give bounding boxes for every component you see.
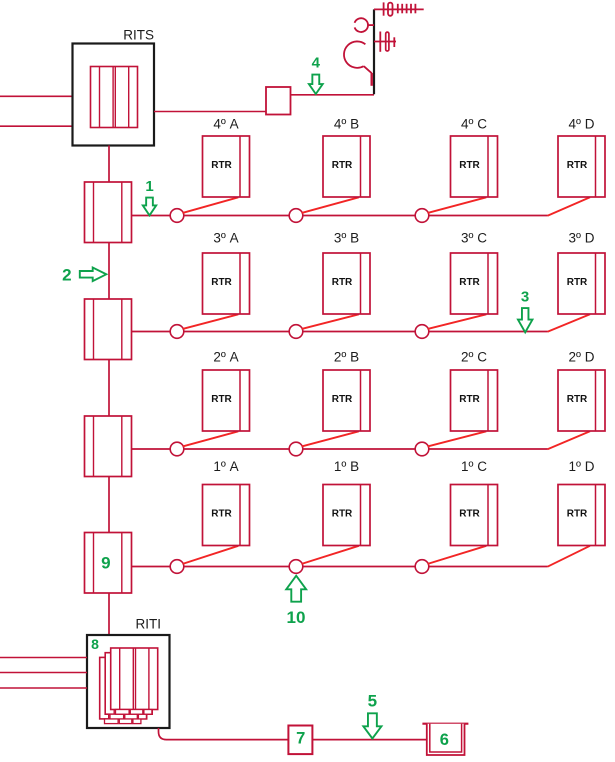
arrow 2 <box>80 268 107 282</box>
svg-text:6: 6 <box>440 731 449 749</box>
node: floor 1º distribution point 2 <box>289 560 303 574</box>
svg-text:3º A: 3º A <box>213 231 238 246</box>
wire: floor 2º distribution line <box>132 448 548 450</box>
svg-text:4º A: 4º A <box>213 117 238 132</box>
RTR box 2º B <box>323 370 370 431</box>
RITS enclosure <box>73 44 155 146</box>
node: floor 3º distribution point 3 <box>415 325 429 339</box>
RTR box 4º B <box>323 136 370 197</box>
arqueta outer wall <box>427 724 465 755</box>
junction box 7 <box>288 726 312 755</box>
svg-text:RTR: RTR <box>332 508 353 519</box>
wire: floor 2º diagonal to unit C <box>428 431 487 446</box>
node: floor 3º distribution point 2 <box>289 325 303 339</box>
secondary register floor 4 <box>85 182 132 243</box>
RTR box 3º C <box>451 253 498 314</box>
cabinet stack in RITI (front) <box>111 648 158 714</box>
FM omni antenna open circle <box>355 18 368 32</box>
wire: riser segment below floor 2 <box>108 477 110 533</box>
wire: floor 4º diagonal to unit B <box>302 197 359 213</box>
wire: external feed into RITI 3 <box>0 687 87 689</box>
node: floor 2º distribution point 3 <box>415 442 429 456</box>
svg-text:3º C: 3º C <box>461 231 487 246</box>
RTR box 3º B <box>323 253 370 314</box>
wire: floor 1º diagonal to unit D <box>548 546 591 567</box>
arqueta lid <box>422 723 468 725</box>
arqueta inner wall <box>430 724 462 752</box>
yagi reflector element <box>383 2 385 15</box>
wire: floor 1º diagonal to unit A <box>183 546 239 564</box>
cabinet stack in RITI (middle) <box>105 653 152 719</box>
wire: dish downlead on mast <box>371 73 373 86</box>
svg-text:RTR: RTR <box>211 277 232 288</box>
svg-text:RITS: RITS <box>123 28 154 43</box>
RTR box 1º C <box>451 485 498 546</box>
svg-text:RTR: RTR <box>459 394 480 405</box>
svg-text:5: 5 <box>368 692 377 711</box>
node: floor 3º distribution point 1 <box>170 325 184 339</box>
node: floor 1º distribution point 3 <box>415 560 429 574</box>
wire: riser RITS to register 4 <box>108 146 110 183</box>
wire: floor 4º diagonal to unit A <box>183 197 239 213</box>
wire: floor 4º diagonal to unit D <box>548 197 591 215</box>
wire: floor 2º diagonal to unit D <box>548 431 591 449</box>
node: floor 4º distribution point 1 <box>170 209 184 223</box>
node: floor 2º distribution point 2 <box>289 442 303 456</box>
svg-text:1: 1 <box>145 178 153 195</box>
RTR box 1º A <box>203 485 250 546</box>
wire: omni antenna to mast <box>368 24 374 26</box>
svg-text:2º C: 2º C <box>461 350 487 365</box>
svg-text:4º C: 4º C <box>461 117 487 132</box>
wire: floor 1º diagonal to unit B <box>302 546 359 564</box>
RTR box 4º A <box>203 136 250 197</box>
svg-text:7: 7 <box>296 730 305 748</box>
arrow 10 <box>286 576 306 602</box>
svg-text:RTR: RTR <box>567 160 588 171</box>
node: floor 2º distribution point 1 <box>170 442 184 456</box>
RTR box 1º D <box>558 485 605 546</box>
RITI enclosure <box>87 635 170 728</box>
svg-text:3º D: 3º D <box>569 231 595 246</box>
secondary register floor 1 <box>85 533 132 594</box>
svg-text:RTR: RTR <box>211 508 232 519</box>
wire: floor 2º diagonal to unit B <box>302 431 359 446</box>
satellite dish feed arm <box>364 66 372 73</box>
svg-text:8: 8 <box>91 636 99 652</box>
wire: feeder line into RITS (lower) <box>0 125 73 127</box>
node: floor 4º distribution point 3 <box>415 209 429 223</box>
cabinet inside RITS <box>91 67 138 128</box>
RTR box 4º C <box>451 136 498 197</box>
satellite dish reflector <box>344 41 365 67</box>
svg-text:RTR: RTR <box>332 394 353 405</box>
secondary register floor 3 <box>85 299 132 360</box>
cabinet stack in RITI (back) <box>100 657 147 723</box>
wire: floor 3º diagonal to unit D <box>548 314 591 331</box>
RTR box 3º A <box>203 253 250 314</box>
svg-text:1º C: 1º C <box>461 459 487 474</box>
svg-text:RTR: RTR <box>459 508 480 519</box>
wire: floor 1º distribution line <box>132 566 548 568</box>
svg-text:3: 3 <box>521 289 529 306</box>
node: floor 1º distribution point 1 <box>170 560 184 574</box>
wire: riser segment below floor 3 <box>108 360 110 417</box>
wire: floor 1º diagonal to unit C <box>428 546 487 564</box>
svg-text:4º B: 4º B <box>334 117 359 132</box>
arrow 3 <box>518 308 533 332</box>
node: floor 4º distribution point 2 <box>289 209 303 223</box>
RTR box 2º C <box>451 370 498 431</box>
svg-text:2º A: 2º A <box>213 350 238 365</box>
svg-text:RTR: RTR <box>567 394 588 405</box>
wire: RITI to box 7 <box>159 728 289 740</box>
svg-text:1º D: 1º D <box>569 459 595 474</box>
wire: feeder line into RITS (upper) <box>0 95 73 97</box>
wire: floor 4º distribution line <box>132 215 548 217</box>
wire: external feed into RITI 2 <box>0 672 87 674</box>
svg-text:3º B: 3º B <box>334 231 359 246</box>
RTR box 3º D <box>558 253 605 314</box>
svg-text:RTR: RTR <box>211 160 232 171</box>
svg-text:RTR: RTR <box>332 160 353 171</box>
DAB antenna dipole loop <box>386 32 389 51</box>
amplifier box (antenna feed) <box>266 87 291 115</box>
svg-text:RTR: RTR <box>567 508 588 519</box>
svg-text:1º B: 1º B <box>334 459 359 474</box>
secondary register floor 2 <box>85 416 132 477</box>
antenna mast <box>373 9 375 94</box>
svg-text:1º A: 1º A <box>213 459 238 474</box>
wire: floor 3º diagonal to unit B <box>302 314 359 329</box>
wire: amplifier to mast <box>291 94 375 96</box>
svg-text:2: 2 <box>62 266 71 285</box>
wire: floor 4º diagonal to unit C <box>428 197 487 213</box>
DAB antenna boom <box>374 41 396 43</box>
RTR box 4º D <box>558 136 605 197</box>
DAB antenna element 1 <box>379 32 381 52</box>
wire: floor 3º diagonal to unit A <box>183 314 239 329</box>
RTR box 2º D <box>558 370 605 431</box>
wire: box 7 to arqueta <box>312 739 426 741</box>
yagi director elements <box>398 4 416 14</box>
svg-text:RTR: RTR <box>459 277 480 288</box>
DAB antenna element 2 <box>393 37 395 47</box>
svg-text:10: 10 <box>287 608 306 627</box>
svg-text:RTR: RTR <box>332 277 353 288</box>
wire: RITS to amplifier <box>154 111 266 113</box>
svg-text:RTR: RTR <box>567 277 588 288</box>
svg-text:2º B: 2º B <box>334 350 359 365</box>
arrow 4 <box>309 75 323 94</box>
wire: floor 3º distribution line <box>132 331 548 333</box>
wire: riser segment below floor 1 <box>108 593 110 635</box>
svg-text:RTR: RTR <box>211 394 232 405</box>
svg-text:2º D: 2º D <box>569 350 595 365</box>
svg-text:4º D: 4º D <box>569 117 595 132</box>
wire: external feed into RITI 1 <box>0 657 87 659</box>
svg-text:RTR: RTR <box>459 160 480 171</box>
svg-text:RITI: RITI <box>136 617 162 632</box>
svg-text:9: 9 <box>101 553 110 572</box>
wire: floor 2º diagonal to unit A <box>183 431 239 446</box>
UHF yagi antenna boom <box>374 8 424 10</box>
svg-text:4: 4 <box>312 55 321 72</box>
RTR box 1º B <box>323 485 370 546</box>
arrow 5 <box>363 713 381 738</box>
arrow 1 <box>143 198 156 216</box>
yagi folded dipole loop <box>388 3 393 16</box>
wire: riser segment below floor 4 <box>108 243 110 300</box>
RTR box 2º A <box>203 370 250 431</box>
wire: floor 3º diagonal to unit C <box>428 314 487 329</box>
